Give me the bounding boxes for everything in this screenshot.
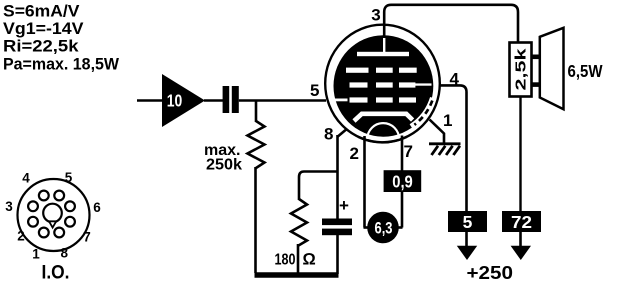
tube envelope circle — [325, 25, 440, 143]
svg-text:250k: 250k — [206, 157, 242, 174]
capacitor C2 plate bottom — [322, 229, 352, 236]
svg-text:180: 180 — [275, 252, 296, 269]
wire R1 to ground rail — [254, 167, 257, 273]
wire pin8 diagonal — [338, 120, 358, 137]
grid row3 dashes — [350, 97, 368, 102]
svg-text:Pa=max. 18,5W: Pa=max. 18,5W — [3, 55, 120, 74]
wire box72 to arrow — [519, 232, 522, 248]
wire R2 to rail — [297, 244, 300, 273]
arrow down left — [457, 246, 477, 260]
speaker terminal tabs — [532, 54, 541, 59]
svg-text:5: 5 — [65, 170, 73, 185]
wire pin3 vertical and top rail to output — [384, 5, 518, 43]
heater supply circle 6,3 — [367, 212, 399, 244]
resistor R1 max.250k zigzag — [248, 121, 265, 168]
svg-text:5: 5 — [463, 212, 473, 232]
resistor R2 180ohm zigzag — [291, 199, 307, 246]
voltage box 0,9 — [384, 170, 422, 192]
wire box to heater circle — [401, 192, 404, 228]
input source triangle 10 — [162, 74, 205, 127]
wire box5 to arrow — [465, 232, 468, 248]
socket pin holes — [39, 228, 49, 238]
current box 5 — [448, 211, 487, 232]
wire pin1 stub — [430, 120, 445, 144]
svg-text:1: 1 — [32, 246, 40, 261]
cathode bar — [354, 114, 413, 121]
capacitor C2 plate top — [322, 219, 352, 226]
svg-text:Ω: Ω — [303, 251, 316, 269]
svg-text:1: 1 — [443, 111, 452, 130]
tube electrode block — [334, 35, 434, 136]
svg-text:10: 10 — [167, 91, 183, 111]
svg-text:2,5k: 2,5k — [513, 48, 530, 91]
wire junction drop to R1 — [255, 101, 258, 123]
capacitor C1 plate left — [223, 86, 230, 113]
svg-text:3: 3 — [5, 199, 13, 214]
wire capacitor to tube grid pin5 — [239, 99, 326, 102]
svg-text:3: 3 — [371, 6, 380, 25]
ground symbol — [429, 142, 461, 145]
socket key notch — [49, 221, 56, 227]
svg-text:Vg1=-14V: Vg1=-14V — [3, 19, 84, 38]
svg-text:I.O.: I.O. — [42, 263, 70, 284]
svg-text:72: 72 — [511, 212, 532, 232]
svg-text:+250: +250 — [467, 262, 514, 283]
pin5 internal lead — [335, 99, 348, 102]
wire pin7 vertical to box — [401, 136, 404, 172]
wire C2 to rail — [336, 235, 339, 274]
arrow down right — [511, 246, 531, 260]
svg-text:2: 2 — [350, 144, 359, 163]
svg-text:S=6mA/V: S=6mA/V — [3, 2, 80, 21]
speaker cone — [540, 28, 564, 109]
wire pin2 vertical to heater — [363, 136, 366, 228]
anode plate bar — [357, 52, 409, 56]
heater dome arch — [367, 123, 399, 139]
wire pin8 vertical to capacitor C2 — [336, 135, 339, 219]
output transformer / speaker coil 2,5k — [510, 43, 532, 97]
pin4 internal lead — [415, 83, 432, 85]
wire pin4 to dropper — [440, 85, 467, 212]
envelope bottom arc over dome — [358, 137, 407, 143]
svg-text:7: 7 — [83, 230, 91, 245]
wire below coil — [519, 97, 521, 213]
svg-text:2: 2 — [17, 229, 25, 244]
wire input left — [137, 99, 162, 102]
grid row1 dashes — [346, 68, 369, 73]
svg-text:6: 6 — [93, 200, 101, 215]
svg-text:+: + — [339, 196, 349, 215]
wire triangle to capacitor — [204, 99, 223, 102]
svg-text:8: 8 — [324, 125, 333, 144]
pin1 dashed internal lead — [411, 98, 433, 127]
svg-text:0,9: 0,9 — [392, 172, 413, 192]
grid row2 dashes — [350, 82, 368, 87]
svg-text:7: 7 — [404, 142, 413, 161]
svg-text:8: 8 — [61, 246, 69, 261]
svg-text:4: 4 — [22, 171, 30, 186]
svg-text:5: 5 — [310, 81, 319, 100]
svg-text:Ri=22,5k: Ri=22,5k — [3, 37, 79, 56]
current box 72 — [502, 211, 541, 232]
svg-text:6,3: 6,3 — [375, 219, 393, 238]
socket outline circle — [18, 179, 90, 251]
capacitor C1 plate right — [232, 86, 239, 113]
svg-text:6,5W: 6,5W — [568, 61, 603, 81]
ground rail bottom — [255, 272, 339, 277]
socket center hole — [43, 204, 62, 223]
pin3 internal lead — [383, 37, 385, 53]
wire cathode stub to R2 — [299, 172, 338, 201]
svg-text:4: 4 — [450, 70, 460, 89]
